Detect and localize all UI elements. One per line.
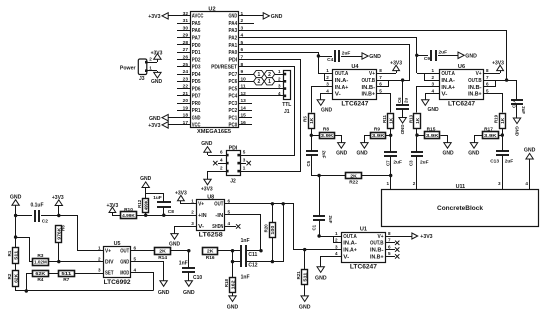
U2 right pin 11 PC5	[229, 84, 253, 93]
svg-text:18: 18	[183, 113, 189, 119]
svg-text:PD2: PD2	[192, 57, 201, 63]
junction R11/R9/C7 node	[389, 134, 392, 137]
U2 left pin 23 PD5	[177, 76, 201, 85]
capacitor C1 2uF	[311, 216, 333, 237]
svg-text:PD4: PD4	[192, 72, 201, 78]
U2 right pin 7 PDI	[229, 55, 253, 64]
J2 pin 6 wire to GND	[201, 141, 226, 156]
IC U11 ConcreteBlock body	[382, 184, 539, 226]
wire C11 right to U8 -IN	[225, 215, 263, 253]
svg-text:3.9K: 3.9K	[484, 133, 497, 139]
op-amp U4 LTC6247 body	[333, 64, 377, 108]
svg-text:C9: C9	[424, 56, 430, 62]
svg-text:3: 3	[241, 25, 244, 31]
GND at U4 V-	[317, 89, 332, 114]
J3 pin 2 wire to +3V3	[147, 51, 163, 63]
U2 right pin 1 GND	[229, 11, 253, 20]
svg-text:100: 100	[270, 225, 275, 235]
wire U8 +IN to R10/C8 node	[164, 215, 196, 217]
svg-text:3.9K: 3.9K	[426, 133, 439, 139]
svg-text:25: 25	[183, 62, 189, 68]
svg-text:2: 2	[432, 75, 435, 80]
svg-text:IN.B-: IN.B-	[362, 85, 376, 91]
+3V3 flag above R6	[52, 195, 64, 216]
svg-text:PC6: PC6	[229, 79, 238, 85]
U2 right pin 4 PA2	[229, 33, 253, 42]
wire U6 IN.B+ to R19	[484, 89, 503, 113]
+3V3 at U8 V+	[175, 191, 196, 204]
U2 left pin 17 VCC	[177, 120, 201, 129]
svg-text:1: 1	[386, 181, 389, 186]
J2 pin 2 wire to +3V3	[201, 166, 226, 193]
U1 IN.B+ no-connect	[385, 251, 399, 258]
U2 right pin 13 PC3	[229, 98, 253, 107]
svg-text:12: 12	[241, 91, 247, 97]
svg-text:3: 3	[278, 84, 281, 89]
U8 pin numbers	[191, 199, 230, 226]
svg-text:8: 8	[379, 68, 382, 73]
svg-text:4: 4	[525, 181, 528, 186]
U2 right pin 15 PC1	[229, 113, 253, 122]
junction R14/C10/R16 node	[187, 249, 190, 252]
svg-text:PD0: PD0	[192, 43, 201, 49]
svg-text:R8: R8	[323, 127, 329, 133]
svg-text:GND: GND	[183, 290, 195, 296]
resistor R12 499K	[137, 194, 149, 215]
svg-text:7: 7	[241, 55, 244, 61]
U2 left pin 29 PA7	[177, 33, 201, 42]
vertical R16 node to C12 node	[232, 251, 234, 262]
svg-text:5: 5	[134, 256, 137, 261]
svg-text:3.9K: 3.9K	[372, 133, 385, 139]
resistor R9 3.9K to GND	[356, 127, 391, 157]
svg-text:IN.B+: IN.B+	[370, 254, 384, 260]
svg-text:8: 8	[241, 62, 244, 68]
svg-text:V+: V+	[369, 71, 375, 77]
svg-text:2uF: 2uF	[439, 50, 448, 56]
svg-text:2: 2	[220, 166, 223, 171]
wire R2 to bottom rail	[16, 287, 154, 291]
svg-text:+3V3: +3V3	[492, 60, 504, 66]
wire U5 OUT to R14	[131, 250, 155, 252]
svg-text:C3: C3	[408, 160, 413, 166]
svg-text:6: 6	[379, 82, 382, 87]
U2 right pin 2 PA4	[229, 18, 255, 27]
op-amp U1 LTC6247 body	[342, 227, 386, 271]
IC U5 LTC6992 body	[104, 241, 132, 286]
svg-text:OUT: OUT	[214, 202, 223, 208]
svg-text:2uF: 2uF	[521, 106, 526, 114]
svg-text:V-: V-	[343, 254, 349, 260]
capacitor C7 2uF	[384, 135, 402, 166]
connector J2 PDI body	[226, 145, 241, 184]
junction C8 bottom node	[162, 214, 165, 217]
svg-text:6: 6	[134, 246, 137, 251]
svg-text:C13: C13	[490, 159, 499, 165]
resistor R4 62K	[25, 271, 58, 293]
GND at U6 V-	[422, 89, 440, 113]
svg-text:PD6: PD6	[192, 86, 201, 92]
svg-text:IN.A+: IN.A+	[441, 85, 455, 91]
svg-text:IN.B+: IN.B+	[468, 92, 482, 98]
svg-text:2: 2	[335, 238, 338, 243]
svg-text:2: 2	[413, 181, 416, 186]
svg-text:+3V3: +3V3	[420, 234, 432, 240]
U2 right pin 6 PA0	[229, 47, 253, 56]
svg-text:R20: R20	[264, 224, 269, 233]
svg-text:3: 3	[498, 181, 501, 186]
junction R16/C11/R18 node	[231, 249, 234, 252]
svg-text:6: 6	[220, 150, 223, 155]
junction C2 left node	[14, 214, 17, 217]
svg-text:1.02M: 1.02M	[34, 260, 47, 266]
wire R19 to node	[502, 129, 504, 135]
svg-text:GND: GND	[400, 125, 405, 135]
svg-text:1: 1	[335, 231, 338, 236]
svg-text:V+: V+	[378, 234, 384, 240]
svg-text:+3V3: +3V3	[390, 60, 402, 66]
svg-text:PDI/RESET: PDI/RESET	[211, 65, 237, 71]
GND flag right of C9	[458, 52, 477, 59]
svg-text:1: 1	[432, 68, 435, 73]
junction U4 OUT.B node	[401, 78, 404, 81]
svg-text:3: 3	[432, 82, 435, 87]
svg-text:TTL: TTL	[282, 102, 291, 108]
J2 pin 5 wire to U2 PDI/RESET	[241, 67, 295, 156]
svg-text:PR1: PR1	[192, 108, 201, 114]
wire R5 to node	[311, 129, 313, 135]
svg-text:5: 5	[243, 150, 246, 155]
svg-text:499K: 499K	[144, 200, 149, 210]
resistor R15 3.9K to GND	[417, 126, 454, 156]
svg-text:+3V3: +3V3	[52, 195, 64, 201]
wire R11 to node	[390, 129, 392, 135]
svg-text:3: 3	[191, 221, 194, 226]
svg-text:2uF: 2uF	[342, 50, 351, 56]
svg-text:J2: J2	[230, 178, 236, 184]
crossover hexagon 2 (net 2) at PC7	[264, 70, 275, 78]
svg-text:+3V3: +3V3	[148, 14, 160, 20]
junction R5/R8/C5 node	[310, 134, 313, 137]
svg-text:R5: R5	[303, 116, 308, 122]
svg-text:R7: R7	[63, 277, 69, 283]
svg-text:C5: C5	[306, 160, 311, 166]
crossover hexagon 1 (net 1) at PC7	[254, 70, 265, 78]
svg-text:13: 13	[241, 98, 247, 104]
svg-text:3: 3	[98, 267, 101, 272]
resistor R21 511 to GND	[296, 250, 311, 311]
svg-text:U4: U4	[351, 64, 359, 70]
svg-text:PA6: PA6	[192, 28, 201, 34]
svg-text:6: 6	[486, 82, 489, 87]
capacitor C6 2uF to GND	[396, 80, 409, 134]
svg-text:2uF: 2uF	[393, 160, 402, 166]
svg-text:+3V3: +3V3	[201, 186, 213, 192]
resistor R8 3.9K to GND	[311, 127, 348, 157]
GND flag above R12	[140, 176, 152, 194]
wire C12 right to R20 and U8 OUT branch	[247, 204, 284, 263]
GND flag right of C4	[362, 53, 381, 60]
svg-text:1: 1	[278, 69, 281, 74]
svg-text:PC5: PC5	[229, 86, 238, 92]
wire +3V3 node to U5 V+	[59, 216, 104, 251]
svg-text:1K: 1K	[389, 118, 394, 124]
junction U1 OUT.A node	[317, 234, 320, 237]
svg-text:OUT.B: OUT.B	[370, 241, 384, 247]
J2 pin 3 no-connect	[240, 158, 251, 166]
svg-text:PA0: PA0	[229, 50, 238, 56]
svg-text:4: 4	[335, 251, 338, 256]
svg-text:2K: 2K	[207, 249, 214, 255]
svg-text:PC4: PC4	[229, 94, 238, 100]
svg-text:PD5: PD5	[192, 79, 201, 85]
IC U2 XMEGA16E5 body	[191, 7, 239, 136]
svg-text:U1: U1	[360, 227, 367, 233]
svg-text:1: 1	[191, 199, 194, 204]
svg-text:V+: V+	[105, 249, 111, 255]
svg-text:R21: R21	[296, 271, 301, 280]
svg-text:ConcreteBlock: ConcreteBlock	[437, 205, 483, 212]
U2 left pin 22 PD6	[177, 84, 201, 93]
U1 IN.B- no-connect	[385, 244, 399, 251]
resistor R10 4.99K	[121, 207, 197, 219]
wire U4 OUT.B feedback to IN.B-	[377, 75, 404, 87]
svg-text:U2: U2	[208, 7, 215, 13]
svg-text:GND: GND	[321, 107, 333, 113]
svg-text:3.9K: 3.9K	[321, 133, 334, 139]
svg-text:GND: GND	[299, 305, 311, 311]
svg-text:5: 5	[228, 210, 231, 215]
svg-text:24: 24	[183, 69, 189, 75]
svg-text:1K: 1K	[309, 118, 314, 124]
svg-text:SET: SET	[105, 271, 114, 277]
svg-text:IN.B+: IN.B+	[362, 92, 376, 98]
svg-text:J1: J1	[284, 109, 290, 115]
svg-text:511: 511	[13, 250, 18, 260]
svg-text:14: 14	[241, 105, 247, 111]
resistor R13	[408, 114, 420, 129]
U5 MOD pin 4 loop to bottom rail	[131, 273, 154, 291]
resistor R20 100	[264, 204, 276, 262]
svg-text:511: 511	[303, 272, 308, 282]
wire DIV node to U5 pin 2	[59, 261, 103, 263]
svg-text:1nF: 1nF	[241, 238, 250, 244]
svg-text:7: 7	[379, 75, 382, 80]
svg-text:4: 4	[241, 33, 244, 39]
svg-text:32: 32	[183, 11, 189, 17]
resistor R3 1.02M	[33, 253, 60, 266]
svg-text:6: 6	[241, 47, 244, 53]
svg-text:OUT.B: OUT.B	[468, 78, 482, 84]
svg-text:3: 3	[335, 244, 338, 249]
svg-text:PR0: PR0	[192, 101, 201, 107]
svg-text:LTC6247: LTC6247	[448, 102, 476, 108]
svg-text:OUT: OUT	[120, 249, 129, 255]
svg-text:GND: GND	[201, 141, 213, 147]
svg-text:IN.B-: IN.B-	[468, 85, 482, 91]
svg-text:2: 2	[258, 79, 261, 85]
resistor R14 2K	[155, 248, 190, 262]
GND flag at U2 pin 1	[252, 13, 283, 20]
junction R21 top node	[303, 248, 306, 251]
svg-text:62K: 62K	[13, 274, 18, 283]
svg-text:GND: GND	[227, 305, 239, 311]
svg-text:1: 1	[98, 246, 101, 251]
svg-text:C8: C8	[168, 209, 174, 215]
svg-text:C7: C7	[385, 160, 390, 166]
wire C13 to U11 pin 3	[498, 155, 502, 190]
resistor R6 976K	[56, 216, 66, 262]
svg-text:2uF: 2uF	[505, 159, 514, 165]
svg-text:5: 5	[241, 40, 244, 46]
wire R13 to node	[416, 129, 418, 135]
svg-text:GND: GND	[442, 151, 454, 157]
svg-text:V+: V+	[198, 202, 204, 208]
junction R22 left node	[317, 174, 320, 177]
svg-text:V-: V-	[198, 224, 204, 230]
svg-text:5: 5	[379, 89, 382, 94]
capacitor C5 2uF	[306, 135, 327, 167]
svg-text:R6: R6	[61, 225, 66, 231]
svg-text:R12: R12	[137, 199, 142, 208]
capacitor C3 2uF	[408, 135, 428, 166]
wire U6 OUT.B feedback to IN.B-	[483, 75, 507, 87]
U2 left pin 28 PD0	[177, 40, 201, 49]
U2 left pin 21 PD7	[177, 91, 201, 100]
svg-text:U5: U5	[114, 241, 121, 247]
svg-text:IN.A-: IN.A-	[343, 241, 357, 247]
J2 pin 4 no-connect	[213, 158, 226, 166]
svg-text:GND: GND	[192, 115, 201, 121]
svg-text:2uF: 2uF	[322, 151, 327, 159]
svg-text:R13: R13	[408, 114, 413, 123]
resistor R2 62K	[7, 271, 19, 287]
svg-text:GND: GND	[229, 14, 238, 20]
svg-text:R3: R3	[37, 253, 43, 259]
svg-text:PA1: PA1	[229, 43, 238, 49]
svg-text:2K: 2K	[159, 249, 166, 255]
svg-text:22: 22	[183, 84, 189, 90]
wire PC4 to J1 pin 4	[252, 91, 284, 96]
wire U4 IN.B+ to R11	[377, 89, 391, 113]
svg-text:7: 7	[388, 238, 391, 243]
wire U4 IN.A+ to R5	[312, 82, 333, 113]
wire PC5 to J1 pin 3	[252, 84, 284, 89]
svg-text:28: 28	[183, 40, 189, 46]
resistor R19	[494, 114, 506, 129]
junction R3/R6/DIV node	[57, 260, 60, 263]
U8 SHDN no-connect	[225, 224, 240, 228]
wire C4 node to U4 OUT.A and IN.A-	[318, 56, 333, 81]
svg-text:C11: C11	[248, 252, 257, 258]
svg-text:2uF: 2uF	[420, 160, 429, 166]
U2 left pin 19 PR1	[177, 105, 201, 114]
svg-text:PC2: PC2	[229, 108, 238, 114]
svg-text:162: 162	[230, 280, 235, 290]
svg-text:OUT.A: OUT.A	[441, 71, 455, 77]
svg-text:R15: R15	[427, 126, 436, 132]
U5 GND pin 5 to GND	[131, 262, 170, 296]
U2 left pin 25 PD3	[177, 62, 201, 71]
svg-text:2uF: 2uF	[328, 216, 333, 224]
svg-text:2: 2	[191, 210, 194, 215]
connector J3 Power	[120, 59, 148, 82]
resistor R1 511	[7, 248, 19, 264]
U2 right pin 9 PC7	[229, 69, 253, 78]
wire R3 branch	[16, 238, 33, 262]
svg-text:C1: C1	[311, 224, 316, 230]
svg-text:2: 2	[149, 57, 152, 62]
svg-text:LTC6992: LTC6992	[104, 280, 132, 286]
svg-text:2: 2	[268, 72, 271, 78]
svg-text:15: 15	[241, 113, 247, 119]
wire C3 to U11 pin 2	[413, 156, 417, 190]
svg-text:31: 31	[183, 18, 189, 24]
svg-text:4: 4	[326, 89, 329, 94]
svg-text:17: 17	[183, 120, 189, 126]
svg-text:R11: R11	[382, 115, 387, 123]
svg-text:2: 2	[241, 18, 244, 24]
resistor R11	[382, 114, 394, 129]
svg-text:511: 511	[61, 271, 71, 277]
svg-text:2u: 2u	[404, 98, 409, 103]
svg-text:1: 1	[243, 166, 246, 171]
svg-text:C4: C4	[327, 57, 333, 63]
svg-text:1K: 1K	[415, 118, 420, 124]
svg-text:2K: 2K	[350, 173, 357, 179]
capacitor C10 1nF to GND	[179, 251, 203, 296]
capacitor C4 2uF	[318, 50, 362, 63]
wire left rail GND to R1	[15, 216, 17, 248]
wire U8 OUT to U1 IN.A+	[225, 204, 294, 250]
svg-text:R2: R2	[7, 273, 12, 279]
svg-text:10: 10	[241, 76, 247, 82]
svg-text:5: 5	[388, 251, 391, 256]
svg-text:R10: R10	[124, 207, 133, 213]
svg-text:7: 7	[486, 75, 489, 80]
svg-text:2: 2	[278, 76, 281, 81]
svg-text:LTC6247: LTC6247	[341, 102, 369, 108]
svg-text:IN.A-: IN.A-	[335, 78, 349, 84]
svg-text:PA4: PA4	[229, 21, 238, 27]
U2 left pin 26 PD2	[177, 55, 201, 64]
svg-text:R16: R16	[206, 255, 215, 261]
svg-text:J3: J3	[139, 76, 145, 82]
capacitor C14 2uF to GND	[507, 81, 526, 136]
svg-text:R18: R18	[224, 279, 229, 288]
capacitor C12 1nF	[232, 256, 258, 280]
svg-text:PA5: PA5	[192, 21, 201, 27]
junction R13/R15/C3 node	[415, 133, 418, 136]
junction R12 bottom node	[144, 214, 147, 217]
resistor R22 2K	[319, 173, 391, 186]
wire R1 to R2	[15, 263, 17, 270]
connector J1 TTL body	[282, 71, 291, 115]
svg-text:2: 2	[326, 75, 329, 80]
svg-text:9: 9	[241, 69, 244, 75]
resistor R5	[303, 114, 315, 129]
svg-text:GND: GND	[468, 151, 480, 157]
U2 left pin 32 AVCC	[177, 11, 204, 20]
J2 pin 1 wire to U2 PDI	[241, 60, 301, 172]
+3V3 flag at U2 pin 32	[148, 13, 177, 20]
svg-text:MOD: MOD	[120, 271, 129, 277]
svg-text:+3V3: +3V3	[151, 51, 163, 57]
svg-text:4: 4	[228, 221, 231, 226]
svg-text:1nF: 1nF	[179, 261, 188, 267]
svg-text:R22: R22	[349, 180, 358, 186]
U2 right pin 3 PA3	[229, 25, 253, 34]
